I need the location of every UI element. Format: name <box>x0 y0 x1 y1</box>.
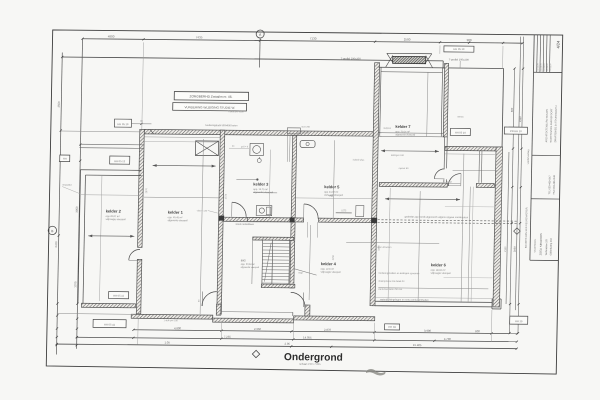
svg-text:3050: 3050 <box>75 206 79 213</box>
wall W6 below kelder3-5 <box>224 217 271 221</box>
wall W1 lower <box>136 259 142 314</box>
kelder3 dim stub <box>236 178 258 180</box>
door stub right <box>305 305 310 316</box>
junction block W2 <box>219 216 225 221</box>
door arc kelder3 to hall <box>232 202 247 217</box>
svg-text:vloeropbouw zie detail 04: vloeropbouw zie detail 04 <box>378 280 405 283</box>
svg-text:afgewerkt vloerpeil: afgewerkt vloerpeil <box>241 266 260 269</box>
wall W3 long central <box>370 63 380 306</box>
label box HH A <box>114 119 131 127</box>
svg-text:leidingen 100: leidingen 100 <box>391 155 405 157</box>
svg-text:HH 04: HH 04 <box>388 325 396 329</box>
junction block W5 <box>290 217 295 222</box>
svg-text:2.870: 2.870 <box>324 328 332 332</box>
note box 2 <box>173 103 247 111</box>
svg-text:instortprofiel: instortprofiel <box>297 131 309 134</box>
label box HH G <box>109 292 129 299</box>
fixture round tank kelder3 <box>250 143 264 155</box>
kelder7 dim vertical <box>427 72 428 136</box>
title block column grid <box>530 35 534 261</box>
corridor door posts <box>306 222 308 238</box>
top dimension ticks <box>81 38 83 40</box>
svg-text:afgewerkt vloerpeil: afgewerkt vloerpeil <box>395 133 415 136</box>
label box HH E <box>450 128 470 135</box>
door arc kelder6 top <box>448 173 461 186</box>
svg-text:kelder 7: kelder 7 <box>395 124 411 129</box>
svg-text:2500: 2500 <box>57 101 61 108</box>
kelder6 vertical dim <box>388 188 390 301</box>
svg-text:2580: 2580 <box>404 37 411 41</box>
svg-text:750: 750 <box>329 195 334 198</box>
wall W5 kelder3-kelder5 <box>290 135 297 288</box>
svg-text:stort 250: stort 250 <box>301 125 310 128</box>
svg-text:900: 900 <box>467 38 472 42</box>
title block divider 2 <box>531 198 560 200</box>
svg-text:HH 05 10: HH 05 10 <box>453 47 465 51</box>
label box HH H <box>93 319 126 327</box>
svg-text:ONDERDEEL: ONDERDEEL <box>535 238 537 252</box>
svg-text:4.700: 4.700 <box>444 337 452 341</box>
kelder6 top wall right part <box>476 183 494 187</box>
svg-text:ZOELI NIEUWARS: ZOELI NIEUWARS <box>538 233 542 255</box>
svg-text:1.05: 1.05 <box>164 341 170 345</box>
svg-text:7435: 7435 <box>196 35 203 39</box>
wall chain stub W1 bottom <box>137 318 139 344</box>
wall chain stubs bottom <box>220 321 222 339</box>
svg-text:4.800: 4.800 <box>174 326 182 330</box>
svg-text:2870: 2870 <box>145 187 148 193</box>
kelder6 inner double line <box>468 187 470 302</box>
span direction arrows <box>88 235 134 237</box>
svg-text:kelder 5: kelder 5 <box>324 184 340 189</box>
left chain ticks <box>61 56 63 58</box>
title block bottom line <box>530 259 559 261</box>
door arc kelder5 <box>304 204 319 219</box>
svg-text:HH 05 10: HH 05 10 <box>117 122 129 126</box>
svg-text:22.03.97: 22.03.97 <box>547 62 549 71</box>
kelder7 inner rectangle <box>380 67 381 135</box>
datum circle marker A <box>256 30 264 38</box>
right section inner wall <box>478 151 481 183</box>
svg-text:800: 800 <box>510 107 514 112</box>
svg-text:22.03.97: 22.03.97 <box>550 62 552 71</box>
kelder3 vertical dim <box>269 150 270 218</box>
koekoek X-braced box <box>195 141 218 156</box>
bottom wall right section <box>375 301 492 302</box>
left boundary chain B <box>77 39 83 349</box>
kelder2 left wall <box>78 170 81 304</box>
strip lines above kelder2 <box>80 143 145 146</box>
staircase treads <box>251 240 254 284</box>
bottom bay inner line <box>220 311 293 314</box>
label box HH I <box>385 324 400 330</box>
svg-text:15.405: 15.405 <box>413 343 422 347</box>
site boundary outline <box>62 57 443 61</box>
svg-text:Gildenkamp 204: Gildenkamp 204 <box>549 237 552 255</box>
svg-text:T-profiel 100x100: T-profiel 100x100 <box>449 57 470 61</box>
svg-text:kelder 4: kelder 4 <box>321 261 337 266</box>
svg-text:3.900: 3.900 <box>424 329 432 333</box>
topleft corner dim <box>131 123 151 125</box>
stair leader line <box>295 269 317 275</box>
svg-text:TEL 033-4614247: TEL 033-4614247 <box>548 175 551 195</box>
door arc bottom wall kelder1 <box>202 291 217 306</box>
svg-text:funderingsbalk 500x600 beton: funderingsbalk 500x600 beton <box>205 124 238 127</box>
svg-text:Technieken 2/8: Technieken 2/8 <box>545 239 548 256</box>
svg-text:wandafwerking: wandafwerking <box>527 149 530 164</box>
label box HH J <box>510 316 528 324</box>
upper hall arrow <box>381 150 439 153</box>
svg-text:trap: trap <box>299 271 304 274</box>
svg-text:7130: 7130 <box>310 37 317 41</box>
door arc right section <box>434 169 444 179</box>
svg-text:88G: 88G <box>241 258 246 262</box>
svg-text:14.055: 14.055 <box>303 336 312 340</box>
kelder2 top lines <box>81 169 142 172</box>
datum circle marker B <box>48 226 57 234</box>
stair bottom wall <box>261 284 295 288</box>
dashed future-extension lines <box>378 220 518 221</box>
svg-text:2.350: 2.350 <box>254 327 262 331</box>
kelder7 bottom opening lines <box>378 132 443 135</box>
door frame detail rect <box>356 206 364 217</box>
kelder2 bottom wall <box>81 303 135 308</box>
sheet border frame <box>46 30 563 374</box>
junction block W3 <box>371 218 377 224</box>
wall W1 kelder2-kelder1 upper <box>138 129 145 247</box>
label box HH F <box>504 127 527 134</box>
svg-text:HH 05 12: HH 05 12 <box>114 159 126 163</box>
stair hall top wall <box>253 237 294 240</box>
svg-text:HH 05 10: HH 05 10 <box>455 131 467 135</box>
svg-text:kelder 1: kelder 1 <box>168 210 184 215</box>
right outer wall <box>493 147 503 307</box>
svg-text:1575: 1575 <box>225 193 228 199</box>
svg-text:kelder 6: kelder 6 <box>431 262 447 267</box>
bottom right section lines <box>375 297 492 298</box>
door arc bottom wall right <box>290 292 305 307</box>
wall W4 kelder7 right <box>443 63 448 137</box>
title diamond symbol <box>252 350 259 357</box>
svg-text:opp. 23,04 m²: opp. 23,04 m² <box>241 263 255 266</box>
svg-text:1575: 1575 <box>341 210 347 212</box>
svg-text:vrijhoogte vloerpeil: vrijhoogte vloerpeil <box>106 218 126 221</box>
svg-text:opstort 80: opstort 80 <box>399 167 410 170</box>
svg-text:2250: 2250 <box>332 254 335 260</box>
svg-text:6470: 6470 <box>54 241 58 248</box>
svg-text:3050: 3050 <box>513 246 517 252</box>
kelder6 top wall door threshold <box>447 182 460 184</box>
wall W4 lower thin <box>443 137 446 169</box>
svg-text:funderingsbalken en leidingen: funderingsbalken en leidingen opnemen <box>379 272 421 275</box>
svg-text:kozijn: kozijn <box>446 181 452 183</box>
svg-text:maaiveld: maaiveld <box>62 185 72 187</box>
svg-text:1 duik pvc 100: 1 duik pvc 100 <box>164 320 179 322</box>
kelder5 dim line 750 <box>296 197 372 200</box>
svg-text:HH: HH <box>63 157 67 161</box>
svg-text:22.03.97: 22.03.97 <box>540 62 542 71</box>
bottom wall left part <box>131 314 213 319</box>
bottom wall right part <box>294 316 375 321</box>
svg-text:B: B <box>51 229 53 233</box>
lightwell funnel marks <box>387 53 393 62</box>
svg-text:kelder 3: kelder 3 <box>253 181 269 186</box>
right section top wall <box>445 146 502 151</box>
svg-text:22.03.97: 22.03.97 <box>544 62 546 71</box>
kelder1 inner line <box>144 140 220 143</box>
svg-text:1375: 1375 <box>73 281 77 288</box>
svg-text:7.255: 7.255 <box>224 335 232 339</box>
kelder6 faint horizontals <box>445 205 494 207</box>
building top line left ext <box>61 130 140 133</box>
label box HH D <box>444 46 474 52</box>
left boundary dimension chain A <box>56 53 62 355</box>
svg-text:1880: 1880 <box>378 245 381 251</box>
svg-text:PR HH 10: PR HH 10 <box>510 129 522 133</box>
svg-text:waterdichtingslagen en extra w: waterdichtingslagen en extra werkzaamhed… <box>380 298 429 301</box>
corridor thin line <box>224 221 290 224</box>
svg-text:vrijhoogte vloerpeil: vrijhoogte vloerpeil <box>431 272 451 275</box>
kelder2 mid dim line <box>81 194 140 197</box>
wall chain stub right top <box>502 46 504 69</box>
leader between fixtures <box>229 147 249 149</box>
door arc kelder2 <box>129 249 140 260</box>
door stub left <box>216 304 221 315</box>
svg-text:vloer+ 120: vloer+ 120 <box>197 209 208 212</box>
bottom bay step left <box>212 315 214 318</box>
svg-text:werkvloer beton 50 mm: werkvloer beton 50 mm <box>378 288 402 291</box>
svg-text:HH 05 41: HH 05 41 <box>104 322 116 326</box>
svg-text:terras: terras <box>458 116 465 119</box>
svg-text:peil = 0: peil = 0 <box>241 146 249 148</box>
top wall inner line <box>144 136 220 139</box>
bottom right corner jog <box>492 298 501 300</box>
svg-text:800: 800 <box>475 329 480 333</box>
scan artifact squiggle bottom right <box>366 369 386 376</box>
top dimension line <box>83 39 523 43</box>
svg-text:stelpost: stelpost <box>383 127 391 130</box>
svg-text:schaal 1:50 = 50m: schaal 1:50 = 50m <box>299 362 320 366</box>
svg-text:2350: 2350 <box>518 116 522 122</box>
top wall corner diagonal <box>150 129 154 134</box>
schacht column lines <box>286 135 289 162</box>
svg-text:T-profiel 100x100: T-profiel 100x100 <box>341 56 362 60</box>
svg-text:VUNDERING WIJZIGING STUDIE W.: VUNDERING WIJZIGING STUDIE W. <box>184 105 235 110</box>
kelder3 sub underline <box>253 192 277 194</box>
svg-text:4800: 4800 <box>108 34 115 38</box>
right chain diamond <box>514 228 521 235</box>
fixture sink kelder5 <box>300 140 315 147</box>
svg-text:vrijhoogte vloerpeil: vrijhoogte vloerpeil <box>321 271 341 274</box>
top wall main band <box>144 129 373 136</box>
svg-text:kelder 2: kelder 2 <box>106 208 122 213</box>
svg-text:22.03.97: 22.03.97 <box>537 62 539 71</box>
datum line from circle A <box>259 38 262 68</box>
bottom bay step right <box>293 316 295 319</box>
svg-text:2150: 2150 <box>504 246 507 252</box>
svg-text:gedeelte app wordt uitgevoerd: gedeelte app wordt uitgevoerd volgens op… <box>405 216 469 220</box>
fixture counter kelder3 <box>256 206 272 216</box>
svg-text:2.05: 2.05 <box>284 342 290 346</box>
svg-text:HH 10: HH 10 <box>515 319 523 323</box>
wall W2 kelder1-kelder3 <box>217 130 225 314</box>
peilbuis symbol <box>257 159 261 163</box>
svg-text:FAX 033-4614248: FAX 033-4614248 <box>553 175 556 195</box>
interior dimension lines <box>200 139 203 314</box>
svg-text:7 dikte pvc 6250: 7 dikte pvc 6250 <box>228 110 245 113</box>
svg-text:4/24: 4/24 <box>555 40 560 49</box>
wall chain stub W1 top <box>142 42 144 129</box>
label box HH C <box>60 155 70 162</box>
bottom wall bay part <box>213 318 294 323</box>
small step structure at wall step <box>287 128 300 134</box>
svg-text:afgewerkt vloerpeil: afgewerkt vloerpeil <box>168 219 188 222</box>
label box HH B <box>110 156 130 164</box>
title block divider 1 <box>532 154 561 156</box>
svg-text:isolatie plus: isolatie plus <box>353 158 365 161</box>
lightwell hatched block <box>393 56 426 63</box>
note box 1 <box>174 92 248 101</box>
svg-text:ZORGBERHD Zwaailm nr. 46.: ZORGBERHD Zwaailm nr. 46. <box>189 94 232 98</box>
terrain tick right <box>459 61 461 68</box>
lightwell outer lines <box>379 66 445 69</box>
svg-text:wand metselsteen: wand metselsteen <box>235 223 254 226</box>
bottom dimension lines <box>133 330 517 334</box>
right dimension chains <box>506 152 509 304</box>
svg-text:HH 05 11: HH 05 11 <box>113 294 124 298</box>
kelder6 top wall <box>379 182 447 187</box>
right section inner top line <box>445 153 495 156</box>
